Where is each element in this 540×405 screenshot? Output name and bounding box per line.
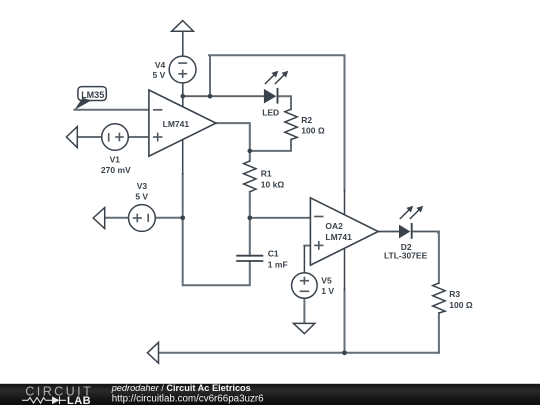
svg-text:LTL-307EE: LTL-307EE (384, 251, 428, 261)
svg-text:R1: R1 (261, 168, 272, 178)
svg-text:LM35: LM35 (81, 90, 104, 100)
svg-text:LAB: LAB (67, 395, 91, 405)
svg-text:LM741: LM741 (325, 232, 352, 242)
svg-text:V3: V3 (137, 181, 148, 191)
svg-text:100 Ω: 100 Ω (449, 300, 473, 310)
svg-text:1 V: 1 V (321, 286, 334, 296)
svg-text:R2: R2 (301, 115, 312, 125)
svg-text:V5: V5 (321, 276, 332, 286)
svg-text:100 Ω: 100 Ω (301, 126, 325, 136)
svg-text:V4: V4 (155, 60, 166, 70)
svg-text:LED: LED (262, 107, 279, 117)
svg-text:270 mV: 270 mV (101, 165, 131, 175)
svg-text:V1: V1 (110, 155, 121, 165)
svg-text:R3: R3 (449, 289, 460, 299)
svg-text:http://circuitlab.com/cv6r66pa: http://circuitlab.com/cv6r66pa3uzr6 (112, 394, 264, 405)
svg-text:10 kΩ: 10 kΩ (261, 179, 285, 189)
svg-text:5 V: 5 V (135, 191, 148, 201)
svg-text:LM741: LM741 (163, 119, 190, 129)
svg-text:C1: C1 (268, 248, 279, 258)
svg-text:5 V: 5 V (153, 70, 166, 80)
svg-text:pedrodaher / Circuit Ac Eletri: pedrodaher / Circuit Ac Eletricos (111, 383, 251, 393)
svg-text:1 mF: 1 mF (268, 259, 288, 269)
svg-text:OA2: OA2 (325, 221, 343, 231)
